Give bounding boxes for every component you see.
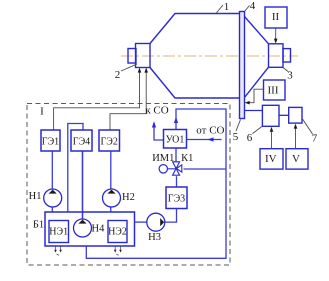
drum cone [245,17,269,98]
drum right journal [269,44,284,68]
pipe UO1 to valve K1 [175,148,177,162]
valve K1 [173,162,182,175]
box II [265,7,287,28]
svg-text:ИМ1: ИМ1 [152,153,174,164]
box 7 (unit) [289,107,302,123]
wire ring to box 6 [245,110,263,112]
pipe GE3 to pump N3 [165,209,177,223]
box IV [260,149,283,169]
heater NE2 [108,221,127,243]
svg-text:НЭ1: НЭ1 [49,227,68,238]
svg-text:3: 3 [287,70,293,82]
actuator IM1 [159,165,176,173]
pipe GE4 loop to tank [68,124,83,213]
drum right shaft block [283,49,291,62]
label 6 [247,127,262,145]
svg-text:к СО: к СО [145,104,168,116]
svg-text:ГЭ1: ГЭ1 [42,136,59,147]
svg-text:5: 5 [233,131,239,143]
drum centerline [121,55,298,57]
drum left shaft block [128,49,136,64]
svg-text:4: 4 [250,0,256,12]
svg-text:от СО: от СО [196,125,224,137]
label 4 [245,0,256,12]
box GE2 [99,130,120,151]
wire 6-7 [279,114,289,116]
label 5 [233,120,241,144]
box GE1 [41,130,60,151]
label 7 [303,119,318,145]
drain under NE2 [114,247,122,256]
label 1 [216,1,230,14]
box GE3 [166,187,187,209]
pipe UO1 return loop to tank [86,109,226,258]
drain under NE1 [54,247,62,256]
pipe tank to pump N3 [135,221,147,223]
wire V to box 7 [294,124,298,149]
wire IV to box 6 [270,127,274,149]
pipe GE4 to pump N4 [82,151,84,219]
svg-text:ГЭ4: ГЭ4 [73,136,90,147]
wire III to gear ring [245,89,264,104]
pump N4 [74,219,106,237]
pipe valve to GE3 [176,176,178,187]
svg-text:Н3: Н3 [148,232,161,243]
svg-text:IV: IV [265,153,277,165]
svg-text:ГЭ2: ГЭ2 [101,136,118,147]
wire GE1 to drum journal [54,68,142,130]
svg-text:Б1: Б1 [33,220,44,231]
svg-text:УО1: УО1 [166,135,185,146]
pipe ot SO with arrow [187,137,222,141]
svg-text:Н4: Н4 [92,224,106,235]
svg-text:1: 1 [224,1,230,13]
svg-text:ГЭ3: ГЭ3 [168,194,185,205]
label 2 [115,64,137,81]
heater NE1 [49,221,69,243]
box 6 (frequency unit) [262,105,279,126]
svg-text:6: 6 [247,132,253,144]
box V [286,149,308,169]
arrow up on UO1 top pipe [174,117,178,123]
wire GE2 to drum journal [110,68,148,130]
pipe K1 to return line [184,168,227,170]
dashed enclosure I [27,104,230,266]
svg-text:К1: К1 [181,153,193,164]
svg-text:III: III [268,85,279,97]
gear ring 4 [240,12,245,119]
pipe k SO with arrow [152,121,164,140]
svg-text:Н1: Н1 [29,191,42,202]
box UO1 [164,130,187,149]
svg-text:II: II [272,11,280,23]
drum body 1 [150,14,240,99]
pump N1 [29,189,62,207]
svg-text:I: I [40,106,44,118]
label 3 [283,68,293,82]
svg-text:Н2: Н2 [122,192,135,203]
svg-text:7: 7 [312,133,318,145]
tank B1 [45,212,135,246]
svg-text:V: V [292,153,300,165]
svg-text:2: 2 [115,69,121,81]
box GE4 [71,130,92,151]
svg-text:НЭ2: НЭ2 [108,227,127,238]
wire II to right journal [274,28,278,44]
pipe GE1 to pump N1 [51,151,53,212]
pump N2 [103,189,135,207]
drum left journal [136,44,151,68]
box III [264,80,286,100]
pump N3 [147,213,165,243]
pipe GE2 to pump N2 [110,151,112,212]
